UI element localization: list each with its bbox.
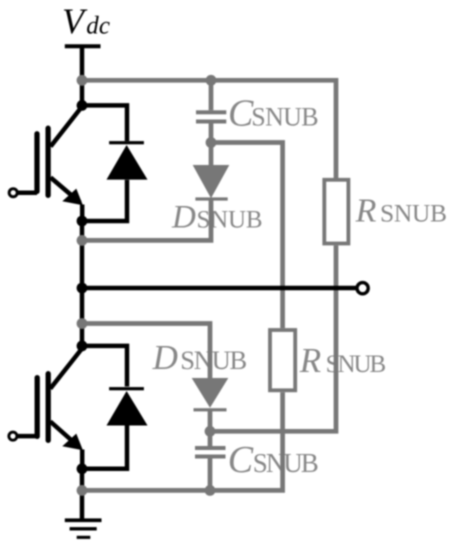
svg-text:dc: dc [86, 13, 110, 40]
svg-text:SNUB: SNUB [253, 448, 319, 478]
svg-text:V: V [62, 1, 88, 41]
svg-text:SNUB: SNUB [251, 103, 318, 132]
svg-text:SNUB: SNUB [180, 345, 247, 375]
svg-text:C: C [228, 93, 254, 135]
svg-text:SNUB: SNUB [380, 198, 447, 227]
svg-text:C: C [228, 439, 254, 481]
svg-text:D: D [152, 338, 178, 377]
svg-text:SNUB: SNUB [197, 207, 263, 234]
svg-text:R: R [355, 192, 377, 229]
svg-text:D: D [171, 200, 196, 236]
svg-text:R: R [299, 341, 321, 380]
